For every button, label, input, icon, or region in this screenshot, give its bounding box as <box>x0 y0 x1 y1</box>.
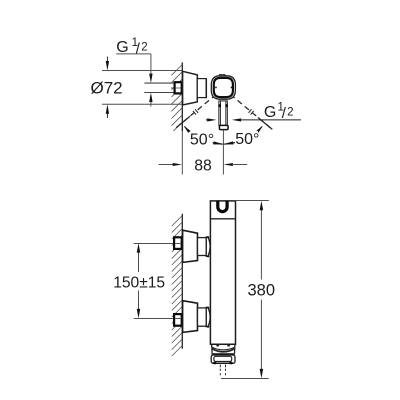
svg-text:2: 2 <box>287 106 293 118</box>
dim 150 extension line top <box>134 243 175 245</box>
wall hatching top view <box>172 65 183 131</box>
swing arrow left <box>206 118 217 121</box>
valve body top view top tab <box>219 75 225 77</box>
svg-text:G: G <box>264 104 276 121</box>
50° swing line left (dashed) <box>176 89 223 128</box>
wall nipple top front view <box>174 237 182 249</box>
dim 380 extension line top <box>236 200 269 202</box>
cup corner tick right <box>227 345 230 347</box>
G1/2 nipple at wall top view <box>175 82 182 93</box>
escutcheon cone bottom front view <box>183 301 198 333</box>
dim Ø72 arrow bottom <box>106 104 109 118</box>
wall line front view <box>181 214 183 349</box>
dim G1/2 arrow lower <box>149 93 152 107</box>
wall hatching front view <box>172 216 183 357</box>
label 50 degrees right <box>235 131 259 148</box>
svg-text:380: 380 <box>248 282 276 300</box>
label G1/2 top <box>116 37 147 58</box>
escutcheon cone top view <box>183 71 198 105</box>
angle arc left arrowhead <box>184 126 190 133</box>
separator line <box>211 353 235 355</box>
double tick on right swing line <box>249 109 254 114</box>
shower hose holder U <box>218 201 227 212</box>
dim 150 extension line bottom <box>134 318 175 320</box>
50° swing line right (dashed) <box>223 89 272 130</box>
supply pipe top view <box>144 83 180 92</box>
inner ring tick left <box>215 87 217 89</box>
svg-text:2: 2 <box>141 42 147 54</box>
thermostat body front view <box>210 201 235 344</box>
escutcheon cone top front view <box>183 230 198 262</box>
center line below handle <box>222 130 224 175</box>
double tick on left swing line <box>193 109 198 114</box>
label G1/2 right <box>264 102 294 123</box>
svg-text:88: 88 <box>194 157 212 174</box>
angle arc right arrowhead <box>256 126 262 133</box>
union flange top front view <box>206 236 210 257</box>
body bottom edge <box>210 343 235 345</box>
cup below body <box>212 345 235 353</box>
extension of wall line down to 88 dim <box>181 131 183 175</box>
handle stem top view <box>218 101 228 126</box>
dim Ø72 arrow top <box>106 57 109 71</box>
foot right <box>229 362 232 365</box>
body cap line <box>210 218 235 220</box>
inner ring tick right <box>231 87 233 89</box>
svg-text:150±15: 150±15 <box>113 274 165 291</box>
svg-text:50°: 50° <box>235 131 259 148</box>
swing arrow right and G1/2 leader right <box>232 118 301 121</box>
dim Ø72 extension line top <box>102 70 182 72</box>
dim 88 left arrow <box>159 163 183 166</box>
cup corner tick left <box>216 345 219 347</box>
outlet nipple dashed part <box>220 369 225 376</box>
dim 88 right arrow <box>224 163 248 166</box>
lower piece inner <box>214 356 232 361</box>
wall line top view <box>181 62 183 131</box>
union cylinder bottom front view <box>198 308 207 326</box>
dim 380 extension line bottom <box>221 378 269 380</box>
angle arc left <box>184 126 223 144</box>
angle arc right <box>223 126 262 144</box>
svg-text:Ø72: Ø72 <box>91 79 123 98</box>
dim G1/2 arrow upper <box>149 54 152 83</box>
union cylinder top front view <box>198 238 207 256</box>
neck cylinder top view <box>197 79 206 98</box>
svg-text:/: / <box>136 40 141 57</box>
valve body top view inner ring <box>214 78 233 97</box>
dim 150 line with arrows <box>137 243 141 318</box>
nut center line top <box>175 243 181 245</box>
label 50 degrees left <box>190 132 215 149</box>
dim 380 line with arrows <box>260 201 264 379</box>
wall nipple bottom front view <box>174 314 182 326</box>
leader G1/2 top <box>116 53 151 55</box>
union flange bottom front view <box>206 307 210 328</box>
dim Ø72 extension line bottom <box>102 103 182 105</box>
nut center line bottom <box>175 318 181 320</box>
svg-text:50°: 50° <box>190 132 214 149</box>
outlet nipple solid part <box>220 365 225 368</box>
lower piece outer <box>211 355 235 363</box>
foot left <box>213 362 216 365</box>
flange line top view <box>205 78 207 98</box>
valve body top view outer <box>211 76 235 99</box>
handle end cap top view <box>219 125 228 129</box>
